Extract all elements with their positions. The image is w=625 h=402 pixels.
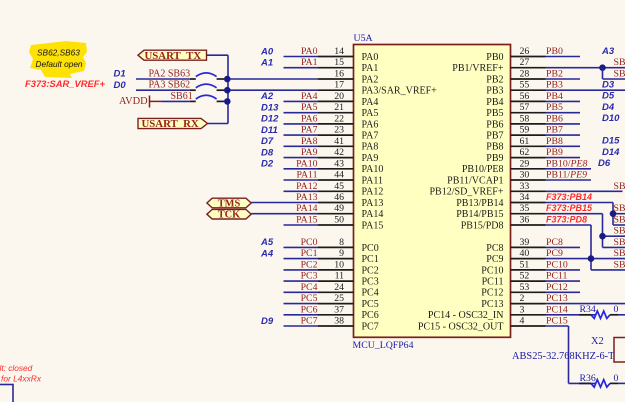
svg-text:AVDD: AVDD xyxy=(119,96,148,107)
svg-text:PC15 - OSC32_OUT: PC15 - OSC32_OUT xyxy=(418,321,504,332)
svg-text:PA6: PA6 xyxy=(301,113,318,124)
pin PC15 - OSC32_OUT (4) right side xyxy=(418,316,569,333)
svg-text:PB10/PE8: PB10/PE8 xyxy=(546,158,587,169)
solder bridge pad left xyxy=(190,89,196,91)
pin PC0 (8) left side xyxy=(260,237,379,254)
wire xyxy=(546,190,623,192)
IC U5A (MCU_LQFP64) body xyxy=(354,45,511,338)
wire xyxy=(284,134,319,136)
svg-text:D3: D3 xyxy=(602,80,615,91)
pin stub xyxy=(511,112,546,114)
component box bottom-left (clipped) xyxy=(0,385,13,402)
svg-text:D12: D12 xyxy=(261,114,279,125)
svg-text:D1: D1 xyxy=(114,69,126,80)
pin PB13/PB14 (34) right side xyxy=(456,192,613,209)
zigzag xyxy=(591,380,610,387)
svg-text:61: 61 xyxy=(520,136,530,147)
svg-text:X2: X2 xyxy=(591,336,604,347)
pin PC8 (39) right side xyxy=(486,237,580,254)
svg-text:PB3: PB3 xyxy=(546,80,563,91)
wire left of solder bridge xyxy=(136,78,190,80)
svg-text:PC5: PC5 xyxy=(301,293,318,304)
zigzag xyxy=(591,311,610,318)
svg-text:30: 30 xyxy=(520,170,530,181)
svg-text:SB62,SB63: SB62,SB63 xyxy=(37,48,80,58)
svg-text:PB6: PB6 xyxy=(546,113,563,124)
solder bridge SB63 (PA2) xyxy=(136,68,231,82)
svg-text:PB2: PB2 xyxy=(546,69,563,80)
wire xyxy=(546,258,625,260)
pin PB10/PE8 (29) right side xyxy=(462,158,611,175)
wire xyxy=(618,314,625,316)
resistor pin left xyxy=(579,382,591,384)
solder bridge pad right xyxy=(217,78,225,80)
svg-text:PA14: PA14 xyxy=(362,209,384,220)
svg-text:PA5: PA5 xyxy=(301,102,318,113)
svg-text:D13: D13 xyxy=(261,103,279,114)
svg-text:21: 21 xyxy=(334,102,344,113)
svg-text:58: 58 xyxy=(520,113,530,124)
svg-text:PC10: PC10 xyxy=(481,265,503,276)
pin stub xyxy=(511,269,546,271)
svg-text:PA4: PA4 xyxy=(301,91,318,102)
svg-text:29: 29 xyxy=(520,158,530,169)
svg-text:33: 33 xyxy=(520,181,530,192)
svg-text:PC2: PC2 xyxy=(301,259,318,270)
svg-text:PC4: PC4 xyxy=(362,288,379,299)
wire xyxy=(546,325,569,327)
svg-text:PA15: PA15 xyxy=(296,215,318,226)
pin PB12/SD_VREF+ (33) right side xyxy=(430,181,623,198)
pin PC13 (2) right side xyxy=(481,293,625,310)
svg-text:43: 43 xyxy=(334,158,344,169)
pin stub xyxy=(318,67,354,69)
pin PA14 (49) left side xyxy=(251,203,383,220)
svg-text:PB3: PB3 xyxy=(486,86,503,97)
svg-text:PA3 SB62: PA3 SB62 xyxy=(149,80,191,91)
pin PA8 (41) left side xyxy=(261,136,378,153)
pin stub xyxy=(511,202,546,204)
svg-text:59: 59 xyxy=(520,125,530,136)
svg-text:PB0: PB0 xyxy=(546,46,563,57)
wire PC15 to R36 xyxy=(569,326,596,383)
svg-text:PB6: PB6 xyxy=(486,119,503,130)
pin PC14 - OSC32_IN (3) right side xyxy=(428,304,595,321)
sticky note highlight xyxy=(29,41,87,78)
pin stub xyxy=(511,56,546,58)
pin PA9 (42) left side xyxy=(261,147,378,164)
svg-text:PC1: PC1 xyxy=(362,254,379,265)
svg-text:SB3: SB3 xyxy=(614,57,625,68)
junction PC9 wire with PD8 column xyxy=(588,255,595,262)
svg-text:PA2: PA2 xyxy=(362,74,379,85)
solder bridge SB62 (PA3) xyxy=(136,80,231,94)
svg-text:PA9: PA9 xyxy=(362,153,379,164)
svg-text:A0: A0 xyxy=(260,46,274,57)
svg-text:PB2: PB2 xyxy=(486,74,503,85)
svg-text:D5: D5 xyxy=(602,91,615,102)
wire xyxy=(284,325,319,327)
svg-text:9: 9 xyxy=(339,248,344,259)
pin stub xyxy=(318,291,354,293)
svg-text:TMS: TMS xyxy=(218,198,241,209)
pin stub xyxy=(318,123,354,125)
wire xyxy=(284,280,319,282)
svg-text:PB8: PB8 xyxy=(486,142,503,153)
pin PC7 (38) left side xyxy=(261,316,379,333)
harness tag TMS xyxy=(207,198,251,209)
pin PB3 (55) right side xyxy=(486,80,625,97)
svg-text:PA11: PA11 xyxy=(362,175,384,186)
svg-text:0: 0 xyxy=(614,304,619,315)
wire xyxy=(284,67,319,69)
svg-text:PC11: PC11 xyxy=(546,271,568,282)
pin PB11/VCAP1 (30) right side xyxy=(447,170,591,187)
svg-text:17: 17 xyxy=(334,80,344,91)
wire xyxy=(546,213,603,215)
wire USART_TX to bridge column xyxy=(207,55,229,123)
svg-text:14: 14 xyxy=(334,46,344,57)
svg-text:ABS25-32.768KHZ-6-T: ABS25-32.768KHZ-6-T xyxy=(512,351,615,362)
svg-text:57: 57 xyxy=(520,102,530,113)
pin PA11 (44) left side xyxy=(284,170,384,187)
wire xyxy=(284,56,319,58)
svg-text:SB3: SB3 xyxy=(614,69,625,80)
pin PB9 (62) right side xyxy=(486,147,620,164)
svg-text:MCU_LQFP64: MCU_LQFP64 xyxy=(353,340,414,351)
svg-text:34: 34 xyxy=(520,192,530,203)
pin stub xyxy=(318,78,354,80)
solder bridge arc xyxy=(196,84,217,88)
pin PA0 (14) left side xyxy=(260,46,378,63)
svg-text:PA9: PA9 xyxy=(301,147,318,158)
svg-text:USART_RX: USART_RX xyxy=(142,118,199,130)
svg-text:PC11: PC11 xyxy=(482,277,504,288)
svg-text:F373:PB15: F373:PB15 xyxy=(546,203,593,213)
pin stub xyxy=(318,112,354,114)
wire xyxy=(284,269,319,271)
svg-text:PB4: PB4 xyxy=(486,97,503,108)
svg-text:2: 2 xyxy=(520,293,525,304)
pin stub xyxy=(318,56,354,58)
svg-text:PC13: PC13 xyxy=(481,299,503,310)
svg-text:46: 46 xyxy=(334,192,344,203)
svg-text:USART_TX: USART_TX xyxy=(145,50,202,62)
solder bridge pad right xyxy=(217,89,225,91)
svg-text:53: 53 xyxy=(520,282,530,293)
svg-text:15: 15 xyxy=(334,57,344,68)
svg-text:PA8: PA8 xyxy=(301,136,318,147)
svg-text:F373:SAR_VREF+: F373:SAR_VREF+ xyxy=(25,78,106,89)
pin PB8 (61) right side xyxy=(486,136,620,153)
svg-text:D6: D6 xyxy=(598,158,611,169)
svg-text:PC0: PC0 xyxy=(362,243,379,254)
svg-text:PA7: PA7 xyxy=(301,125,318,136)
wire xyxy=(546,100,581,102)
svg-text:PB7: PB7 xyxy=(546,125,563,136)
wire xyxy=(546,224,592,226)
svg-text:10: 10 xyxy=(334,259,344,270)
svg-text:D7: D7 xyxy=(261,136,274,147)
pin stub xyxy=(318,280,354,282)
svg-text:D0: D0 xyxy=(114,80,127,91)
svg-text:PB1/VREF+: PB1/VREF+ xyxy=(452,63,504,74)
svg-text:27: 27 xyxy=(520,57,530,68)
port USART_TX xyxy=(138,50,207,62)
svg-text:PB0: PB0 xyxy=(486,52,503,63)
svg-text:PC9: PC9 xyxy=(546,248,563,259)
svg-text:F373:PB14: F373:PB14 xyxy=(546,192,592,202)
resistor pin right xyxy=(610,314,618,316)
svg-text:PB15/PD8: PB15/PD8 xyxy=(461,220,504,231)
wire xyxy=(546,269,581,271)
pin PA12 (45) left side xyxy=(284,181,384,198)
pin stub xyxy=(318,168,354,170)
solder bridge pad right xyxy=(217,100,225,102)
pin stub xyxy=(318,89,354,91)
svg-text:PC6: PC6 xyxy=(301,304,318,315)
svg-text:PC5: PC5 xyxy=(362,299,379,310)
svg-text:PA0: PA0 xyxy=(362,52,379,63)
svg-text:U5A: U5A xyxy=(354,33,373,44)
wire elbow PB13/PB14 to right edge bridges xyxy=(613,203,625,226)
svg-text:PC15: PC15 xyxy=(546,316,568,327)
pin stub xyxy=(511,280,546,282)
pin PA4 (20) left side xyxy=(260,91,378,108)
svg-text:SB3: SB3 xyxy=(614,259,625,270)
wire elbow from pin 27 down to PB2 level xyxy=(603,68,625,79)
pin PB1/VREF+ (27) right side xyxy=(452,57,625,74)
pin PA5 (21) left side xyxy=(261,102,378,119)
svg-text:PB5: PB5 xyxy=(486,108,503,119)
junction xyxy=(224,87,231,94)
junction xyxy=(224,98,231,105)
pin stub xyxy=(318,100,354,102)
pin PB2 (28) right side xyxy=(486,69,580,86)
junction on PB14 bridge column xyxy=(610,210,617,217)
svg-text:PC12: PC12 xyxy=(481,288,503,299)
svg-text:A5: A5 xyxy=(260,237,274,248)
svg-text:SB3: SB3 xyxy=(614,226,625,237)
wire from JTAG tag to pin 49 xyxy=(251,213,318,215)
wire from solder bridge to pin 17 xyxy=(227,89,318,91)
solder bridge arc xyxy=(196,73,217,77)
svg-text:55: 55 xyxy=(520,80,530,91)
svg-text:D14: D14 xyxy=(602,147,620,158)
svg-text:for L4xxRx: for L4xxRx xyxy=(1,374,42,384)
svg-text:PC12: PC12 xyxy=(546,282,568,293)
svg-text:D2: D2 xyxy=(261,159,274,170)
wire xyxy=(284,123,319,125)
pin stub xyxy=(318,269,354,271)
pin PC12 (53) right side xyxy=(481,282,580,299)
svg-text:45: 45 xyxy=(334,181,344,192)
svg-text:4: 4 xyxy=(520,316,525,327)
wire xyxy=(546,112,581,114)
pin stub xyxy=(318,179,354,181)
svg-text:50: 50 xyxy=(334,215,344,226)
pin stub xyxy=(511,89,546,91)
pin stub xyxy=(318,202,354,204)
svg-text:23: 23 xyxy=(334,125,344,136)
svg-text:52: 52 xyxy=(520,271,530,282)
pin stub xyxy=(511,67,546,69)
svg-text:38: 38 xyxy=(334,316,344,327)
pin stub xyxy=(511,291,546,293)
svg-text:3: 3 xyxy=(520,304,525,315)
pin stub xyxy=(318,224,354,226)
svg-text:20: 20 xyxy=(334,91,344,102)
pin PC2 (10) left side xyxy=(284,259,379,276)
svg-text:PC7: PC7 xyxy=(362,321,379,332)
port USART_RX xyxy=(138,118,208,130)
svg-text:PA7: PA7 xyxy=(362,131,379,142)
pin stub xyxy=(511,213,546,215)
wire xyxy=(546,134,581,136)
wire xyxy=(546,179,592,181)
svg-text:D9: D9 xyxy=(261,316,274,327)
wire xyxy=(284,258,319,260)
wire xyxy=(546,157,581,159)
wire xyxy=(284,303,319,305)
pin PA3/SAR_VREF+ (17) left side xyxy=(227,80,437,97)
svg-text:PC8: PC8 xyxy=(546,237,563,248)
power pin tick xyxy=(149,96,151,108)
pin PC4 (24) left side xyxy=(284,282,379,299)
svg-text:D8: D8 xyxy=(261,147,274,158)
svg-text:37: 37 xyxy=(334,304,344,315)
svg-text:16: 16 xyxy=(334,69,344,80)
svg-text:44: 44 xyxy=(334,170,344,181)
svg-text:PA0: PA0 xyxy=(301,46,318,57)
wire xyxy=(284,314,319,316)
wire xyxy=(546,56,581,58)
svg-text:PC7: PC7 xyxy=(301,316,318,327)
wire xyxy=(546,291,581,293)
svg-text:PB5: PB5 xyxy=(546,102,563,113)
pin stub xyxy=(511,325,546,327)
wire xyxy=(546,303,625,305)
svg-text:lt: closed: lt: closed xyxy=(0,363,33,373)
wire xyxy=(546,67,625,69)
pin PC11 (52) right side xyxy=(482,271,580,288)
svg-text:D15: D15 xyxy=(602,136,620,147)
solder bridge SB61 (AVDD) xyxy=(119,91,231,108)
svg-text:PA2 SB63: PA2 SB63 xyxy=(149,68,191,79)
pin stub xyxy=(511,123,546,125)
svg-text:PA10: PA10 xyxy=(296,158,318,169)
svg-text:PC0: PC0 xyxy=(301,237,318,248)
pin PB15/PD8 (36) right side xyxy=(461,214,591,231)
resistor pin right xyxy=(610,382,618,384)
svg-text:PB13/PB14: PB13/PB14 xyxy=(456,198,503,209)
svg-text:PA1: PA1 xyxy=(362,63,379,74)
svg-text:28: 28 xyxy=(520,69,530,80)
pin stub xyxy=(318,213,354,215)
svg-text:PA10: PA10 xyxy=(362,164,384,175)
pin PC5 (25) left side xyxy=(284,293,379,310)
svg-text:40: 40 xyxy=(520,248,530,259)
svg-text:PC4: PC4 xyxy=(301,282,318,293)
pin PC3 (11) left side xyxy=(284,271,379,288)
svg-text:PC8: PC8 xyxy=(486,243,503,254)
svg-text:0: 0 xyxy=(614,373,619,384)
svg-text:PA11: PA11 xyxy=(296,170,317,181)
wire from JTAG tag to pin 46 xyxy=(251,202,318,204)
svg-text:D10: D10 xyxy=(602,113,620,124)
svg-text:F373:PD8: F373:PD8 xyxy=(546,214,587,224)
svg-text:24: 24 xyxy=(334,282,344,293)
svg-text:11: 11 xyxy=(335,271,345,282)
svg-text:D4: D4 xyxy=(602,102,615,113)
wire xyxy=(284,291,319,293)
svg-text:PA13: PA13 xyxy=(362,198,384,209)
svg-text:SB3: SB3 xyxy=(614,215,625,226)
svg-text:R36: R36 xyxy=(580,373,596,384)
pin stub xyxy=(318,190,354,192)
wire xyxy=(284,179,319,181)
svg-text:PC14 - OSC32_IN: PC14 - OSC32_IN xyxy=(428,310,504,321)
wire xyxy=(162,100,190,102)
pin PB6 (58) right side xyxy=(486,113,620,130)
pin PC9 (40) right side xyxy=(486,248,625,265)
svg-text:35: 35 xyxy=(520,203,530,214)
svg-text:25: 25 xyxy=(334,293,344,304)
svg-text:PB11/PE9: PB11/PE9 xyxy=(546,170,587,181)
wire xyxy=(618,382,625,384)
pin stub xyxy=(318,325,354,327)
svg-text:PC3: PC3 xyxy=(362,277,379,288)
resistor R34 xyxy=(579,304,625,318)
pin PA1 (15) left side xyxy=(260,57,378,74)
svg-text:A1: A1 xyxy=(260,58,273,69)
svg-text:A3: A3 xyxy=(601,46,615,57)
solder bridge arc xyxy=(196,95,217,99)
wire xyxy=(284,145,319,147)
pin stub xyxy=(318,246,354,248)
svg-text:PA13: PA13 xyxy=(296,192,318,203)
svg-text:49: 49 xyxy=(334,203,344,214)
pin stub xyxy=(511,145,546,147)
wire xyxy=(284,246,319,248)
wire xyxy=(284,224,319,226)
power wire xyxy=(150,100,162,102)
wire left of solder bridge xyxy=(136,89,190,91)
solder bridge pad left xyxy=(190,78,196,80)
svg-text:39: 39 xyxy=(520,237,530,248)
pin PB14/PB15 (35) right side xyxy=(456,203,602,220)
wire elbow PB14/PB15 down to PC8 level xyxy=(603,214,625,248)
svg-text:PB4: PB4 xyxy=(546,91,563,102)
wire from solder bridge to pin 16 xyxy=(227,78,318,80)
svg-text:PA3/SAR_VREF+: PA3/SAR_VREF+ xyxy=(362,86,438,97)
svg-text:41: 41 xyxy=(334,136,344,147)
pin PB7 (59) right side xyxy=(486,125,580,142)
svg-text:A4: A4 xyxy=(260,248,274,259)
pin stub xyxy=(511,100,546,102)
pin PC10 (51) right side xyxy=(481,259,580,276)
pin stub xyxy=(511,246,546,248)
svg-text:A2: A2 xyxy=(260,91,274,102)
junction node at pin 27 wire xyxy=(599,64,606,71)
svg-text:Default open: Default open xyxy=(36,59,83,69)
crystal X2 (clipped) xyxy=(512,336,625,362)
svg-text:PA1: PA1 xyxy=(301,57,318,68)
svg-text:56: 56 xyxy=(520,91,530,102)
pin stub xyxy=(318,314,354,316)
pin stub xyxy=(511,179,546,181)
junction xyxy=(224,76,231,83)
